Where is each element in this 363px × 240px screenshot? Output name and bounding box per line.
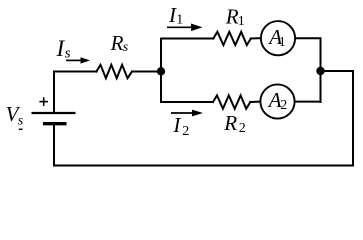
- svg-text:s: s: [123, 40, 129, 55]
- svg-text:s: s: [18, 113, 24, 128]
- svg-text:I: I: [172, 113, 181, 137]
- svg-text:1: 1: [238, 14, 245, 29]
- svg-text:R: R: [225, 4, 239, 28]
- svg-text:1: 1: [279, 35, 286, 50]
- svg-text:1: 1: [176, 13, 183, 28]
- svg-text:R: R: [110, 31, 124, 55]
- svg-text:R: R: [223, 111, 237, 135]
- svg-text:s: s: [65, 46, 71, 62]
- svg-text:2: 2: [239, 121, 246, 136]
- svg-text:2: 2: [280, 98, 287, 113]
- svg-text:2: 2: [182, 124, 189, 139]
